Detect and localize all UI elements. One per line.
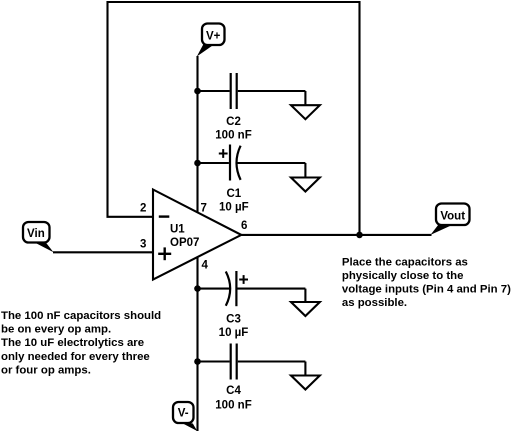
svg-text:C1: C1 [226, 188, 241, 200]
svg-text:C4: C4 [226, 385, 241, 397]
ground symbol (C3) [291, 289, 320, 316]
svg-text:voltage inputs (Pin 4 and Pin: voltage inputs (Pin 4 and Pin 7) [342, 284, 511, 296]
svg-text:or four op amps.: or four op amps. [1, 365, 91, 377]
capacitor C2 [198, 73, 306, 109]
svg-text:Vin: Vin [27, 228, 45, 240]
net label V+ [197, 24, 225, 57]
svg-text:7: 7 [201, 203, 207, 215]
svg-text:U1: U1 [170, 224, 185, 236]
junction dot output/feedback [356, 232, 363, 239]
svg-text:The 10 uF electrolytics are: The 10 uF electrolytics are [1, 337, 144, 349]
net label Vout [431, 204, 470, 235]
ground symbol (C2) [291, 91, 320, 119]
note about 100 nF / 10 uF capacitor usage [1, 310, 161, 377]
svg-text:C3: C3 [226, 313, 241, 325]
svg-text:only needed for every three: only needed for every three [1, 351, 150, 363]
ground symbol (C4) [291, 362, 320, 390]
svg-text:physically close to the: physically close to the [342, 270, 464, 282]
svg-text:Vout: Vout [440, 211, 465, 223]
plus sign (C3 polarity) [239, 275, 248, 284]
capacitor C4 [198, 344, 306, 380]
wire Vin to pin 3 [53, 251, 153, 253]
wire feedback loop (output to pin 2) [108, 2, 360, 235]
svg-text:2: 2 [140, 202, 146, 214]
svg-text:10 µF: 10 µF [219, 327, 249, 339]
net label V- [173, 402, 197, 431]
junction dot V+ rail / C2 [194, 88, 201, 95]
svg-text:4: 4 [202, 260, 209, 272]
svg-text:V+: V+ [206, 30, 221, 42]
wire pin 4 to V- [196, 257, 198, 431]
svg-text:100 nF: 100 nF [215, 400, 251, 412]
capacitor C3 (10 uF electrolytic) [198, 271, 306, 306]
ground symbol (C1) [291, 163, 320, 192]
note about placing capacitors close to voltage inputs [342, 256, 511, 309]
wire output pin 6 to Vout [241, 234, 431, 236]
op-amp inverting input minus sign [159, 215, 170, 217]
wire V+ rail to pin 7 [196, 56, 198, 213]
junction dot pin 4 rail / C4 [194, 358, 201, 365]
svg-text:be on every op amp.: be on every op amp. [1, 324, 111, 336]
svg-text:10 µF: 10 µF [219, 202, 249, 214]
capacitor C1 (10 uF electrolytic) [198, 145, 306, 181]
svg-text:C2: C2 [226, 116, 241, 128]
svg-text:6: 6 [241, 220, 247, 232]
junction dot V+ rail / C1 [194, 160, 201, 167]
op-amp U1 triangle [153, 190, 241, 280]
svg-text:3: 3 [140, 239, 146, 251]
op-amp non-inverting input plus sign [158, 247, 171, 260]
plus sign (C1 polarity) [219, 149, 228, 158]
svg-text:OP07: OP07 [170, 237, 199, 249]
svg-text:as possible.: as possible. [342, 297, 407, 309]
svg-text:Place the capacitors as: Place the capacitors as [342, 256, 468, 268]
svg-text:The 100 nF capacitors should: The 100 nF capacitors should [1, 310, 161, 322]
net label Vin [23, 222, 54, 252]
svg-text:V-: V- [178, 408, 189, 420]
svg-text:100 nF: 100 nF [215, 130, 251, 142]
junction dot pin 4 rail / C3 [194, 285, 201, 292]
